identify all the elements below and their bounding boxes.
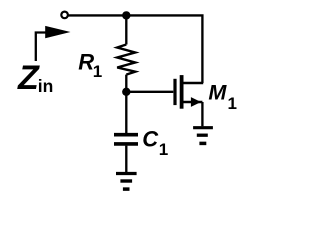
- node A (top junction): [122, 11, 130, 19]
- transistor M1 (NMOS): [175, 75, 203, 109]
- svg-text:R: R: [78, 49, 94, 74]
- wire: resistor to node B: [125, 75, 127, 92]
- ground (under C1): [116, 174, 137, 190]
- resistor R1: [117, 45, 135, 75]
- svg-text:M: M: [208, 80, 227, 105]
- svg-text:1: 1: [93, 62, 102, 81]
- arrow (Zin looking-in direction): [36, 26, 71, 61]
- svg-text:in: in: [38, 76, 54, 96]
- svg-text:Z: Z: [17, 59, 40, 97]
- wire: source to ground: [201, 102, 203, 126]
- wire: node B down to capacitor: [125, 92, 127, 133]
- ground (under M1 source): [193, 128, 213, 144]
- svg-text:C: C: [142, 127, 159, 152]
- node B (gate junction): [122, 88, 130, 96]
- capacitor C1: [114, 133, 138, 137]
- wire: top rail from terminal to drain corner, down to drain: [68, 15, 202, 83]
- wire: node A down to resistor: [125, 15, 127, 44]
- svg-text:1: 1: [228, 94, 237, 113]
- svg-text:1: 1: [159, 140, 168, 159]
- input terminal (open circle): [61, 12, 68, 19]
- wire: capacitor to ground: [125, 146, 127, 172]
- wire: gate wire from node B to transistor: [126, 91, 173, 93]
